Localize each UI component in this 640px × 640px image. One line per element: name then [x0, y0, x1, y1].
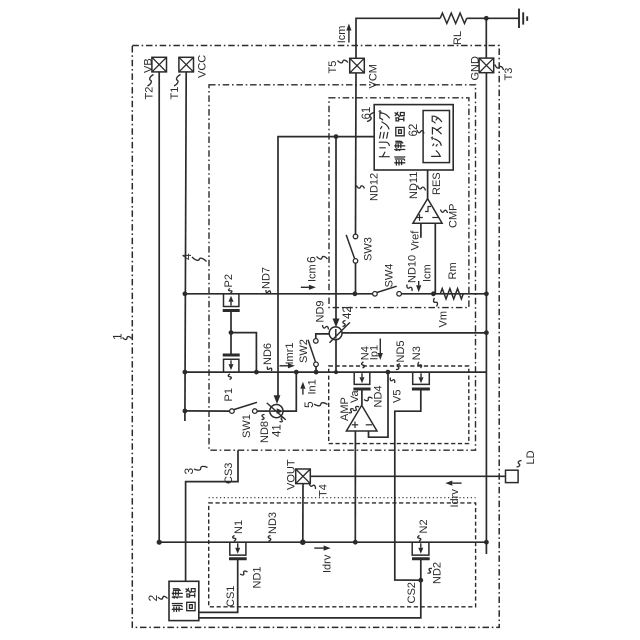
svg-text:ND7: ND7	[261, 267, 273, 289]
svg-text:T4: T4	[318, 484, 330, 497]
laser diode LD box	[506, 470, 519, 482]
svg-text:42: 42	[342, 306, 354, 319]
control circuit box 2	[169, 581, 199, 620]
current arrow Icm at ND10	[418, 281, 420, 285]
current arrow Imr1	[280, 365, 288, 367]
wire SW4 right to GND line	[401, 293, 486, 295]
svg-text:62: 62	[408, 124, 420, 137]
wire N1 gate CS1 to control circuit	[199, 559, 238, 613]
svg-text:Rm: Rm	[447, 262, 459, 279]
svg-text:SW4: SW4	[384, 264, 396, 288]
switch SW2	[314, 362, 319, 367]
current arrow Icm at T5	[348, 31, 350, 43]
text register (katakana) in box 62	[431, 116, 441, 156]
transistor N2	[412, 542, 429, 555]
wire junction to T3	[485, 18, 487, 58]
svg-text:LD: LD	[525, 450, 537, 464]
svg-text:41: 41	[272, 424, 284, 437]
svg-text:ND10: ND10	[407, 255, 419, 283]
terminal T2 VB	[152, 57, 167, 72]
svg-text:N1: N1	[233, 520, 245, 534]
wire N3 gate to N2 gate line	[395, 389, 421, 580]
svg-text:1: 1	[111, 333, 125, 340]
svg-text:T2: T2	[144, 87, 156, 100]
current arrow Ip1	[379, 339, 381, 354]
current source 41	[270, 405, 283, 418]
svg-text:RL: RL	[452, 31, 464, 45]
register box 62	[423, 111, 449, 163]
svg-text:ND12: ND12	[369, 173, 381, 201]
svg-text:ND5: ND5	[395, 340, 407, 362]
node AMP+/rail	[353, 540, 358, 545]
wire CMP minus input to Vm node	[434, 223, 436, 294]
node GND/rail	[484, 540, 489, 545]
terminal T5 VCM	[350, 58, 365, 73]
svg-text:RES: RES	[431, 172, 443, 195]
text control circuit (kanji) in box 2	[172, 589, 182, 612]
svg-text:4: 4	[180, 253, 194, 260]
block 1 outer dash-dot boundary	[132, 46, 499, 628]
wire VOUT down to rail	[302, 484, 304, 543]
wire CS3 path	[186, 450, 238, 581]
svg-text:GND: GND	[470, 56, 482, 81]
svg-text:SW3: SW3	[363, 237, 375, 261]
svg-text:In1: In1	[307, 379, 319, 394]
current arrow Icm at box 6	[301, 286, 309, 288]
wire T5 to RL	[356, 18, 440, 58]
transistor N3	[413, 372, 430, 384]
wire N2 gate to ND2 node	[420, 559, 422, 581]
wire ND6/ND5	[185, 371, 487, 373]
svg-text:VCM: VCM	[368, 64, 380, 88]
svg-text:VB: VB	[143, 58, 155, 73]
svg-text:N2: N2	[418, 519, 430, 533]
switch SW1	[230, 409, 235, 414]
ground symbol	[518, 9, 520, 28]
node GND/42 wire	[484, 330, 489, 335]
auxiliary dotted boundary line	[209, 497, 476, 499]
svg-text:N3: N3	[411, 346, 423, 360]
svg-text:Va: Va	[349, 389, 361, 403]
wire 42 bottom to ND6	[335, 340, 337, 373]
node ND12/42-branch	[334, 134, 339, 139]
svg-text:T1: T1	[169, 87, 181, 100]
switch SW3	[353, 234, 358, 239]
svg-text:P1: P1	[223, 388, 235, 401]
svg-text:ND9: ND9	[315, 300, 327, 322]
node VB/rail corner	[157, 540, 162, 545]
svg-text:Idrv: Idrv	[322, 554, 334, 573]
node SW2 bottom	[314, 370, 319, 375]
wire P1 gate tie to ND6	[231, 333, 256, 373]
node SW3/ND7	[353, 291, 358, 296]
svg-text:CS3: CS3	[223, 463, 235, 484]
svg-text:P2: P2	[223, 274, 235, 287]
node Vm CMP input	[431, 291, 436, 296]
wire VCC bus T1 down	[185, 72, 186, 421]
transistor N1	[230, 542, 246, 555]
node V5/ND5	[386, 370, 391, 375]
node ND2	[418, 578, 423, 583]
svg-text:ND11: ND11	[408, 172, 420, 199]
svg-text:ND4: ND4	[373, 385, 385, 407]
svg-text:T5: T5	[327, 61, 339, 74]
wire CMP output RES to box 61	[427, 170, 429, 199]
svg-text:ND6: ND6	[262, 343, 274, 365]
wire CS2 to control circuit	[199, 580, 421, 618]
svg-text:3: 3	[182, 468, 196, 475]
wire SW2 top to 42	[316, 334, 330, 339]
svg-text:Idrv: Idrv	[449, 489, 461, 508]
current arrow In1	[302, 389, 304, 395]
resistor Rm	[440, 289, 463, 299]
node VCC/ND7	[183, 291, 188, 296]
svg-text:SW1: SW1	[241, 414, 253, 438]
svg-text:2: 2	[146, 595, 160, 602]
transistor P1	[224, 359, 239, 372]
node P2/P1 gate	[229, 330, 234, 335]
node In1/41 feed	[294, 370, 299, 375]
svg-text:Icm: Icm	[307, 264, 319, 282]
svg-text:SW2: SW2	[298, 339, 310, 363]
svg-text:VOUT: VOUT	[286, 459, 298, 490]
transistor N4	[354, 372, 370, 384]
text trimming control circuit (katakana+kanji) in box 61	[379, 111, 389, 157]
node VOUT/rail	[300, 539, 306, 545]
wire bus to SW1	[185, 410, 230, 412]
wire 42 to GND line	[342, 332, 486, 334]
svg-text:Vm: Vm	[438, 311, 450, 328]
wire RL to ground	[467, 17, 519, 19]
wire GND line T3 down right side	[485, 73, 487, 554]
svg-text:CS1: CS1	[225, 586, 237, 607]
terminal T4 VOUT	[296, 469, 311, 484]
op-amp AMP	[346, 405, 377, 431]
node GND/Rm wire	[484, 291, 489, 296]
node VCC/ND6	[183, 370, 188, 375]
svg-text:Imr1: Imr1	[284, 343, 296, 365]
current arrow Idrv at rail	[314, 547, 323, 549]
svg-text:Vref: Vref	[410, 230, 422, 251]
wire ND12 horizontal into trimming block	[278, 137, 374, 398]
svg-text:T3: T3	[503, 68, 515, 81]
node: RL/T3 junction	[484, 16, 489, 21]
svg-text:ND3: ND3	[267, 512, 279, 534]
wire CMP plus input Vref stub	[420, 223, 422, 238]
resistor RL	[440, 13, 467, 23]
wire 41 to ND6	[283, 372, 296, 411]
block 6 boundary	[329, 98, 469, 308]
svg-text:V5: V5	[392, 390, 404, 403]
wire AMP plus input down to rail	[354, 431, 356, 542]
svg-text:ND8: ND8	[259, 421, 271, 443]
wire AMP minus feedback to V5	[369, 372, 389, 437]
current arrow Idrv at LD	[452, 482, 461, 484]
transistor P2	[224, 294, 239, 307]
svg-text:VCC: VCC	[197, 55, 209, 78]
arrow into 41 from ND12 line	[274, 395, 281, 404]
svg-text:Icm: Icm	[336, 26, 348, 44]
block 4 boundary	[209, 85, 476, 450]
wire T5 down to SW3	[355, 73, 358, 234]
wire VB line T2 down to output rail	[158, 72, 160, 542]
switch SW4	[373, 292, 378, 297]
svg-text:CS2: CS2	[406, 582, 418, 603]
terminal T3 GND	[479, 58, 494, 73]
terminal T1 VCC	[179, 57, 194, 72]
current source 42	[329, 327, 342, 340]
wire output rail VB	[159, 541, 486, 543]
wire ND12 branch down to 42	[335, 137, 337, 320]
wire ND7	[185, 293, 373, 295]
node P1 gate tie	[254, 370, 259, 375]
wire SW1 to 41	[257, 410, 270, 412]
block 3 boundary	[209, 503, 476, 607]
node 42 bottom	[334, 370, 338, 374]
wire VOUT to LD	[310, 475, 505, 477]
wire AMP output Va to N4 gate	[361, 390, 363, 405]
svg-text:Ip1: Ip1	[369, 345, 381, 360]
svg-text:ND2: ND2	[432, 562, 444, 584]
svg-text:CMP: CMP	[448, 204, 460, 228]
svg-text:ND1: ND1	[252, 566, 264, 588]
trimming control circuit box 61	[374, 105, 453, 170]
node VCC/SW1 wire	[183, 409, 188, 414]
svg-text:Icm: Icm	[422, 264, 434, 282]
block 5 boundary	[329, 366, 469, 444]
comparator CMP	[413, 199, 442, 224]
